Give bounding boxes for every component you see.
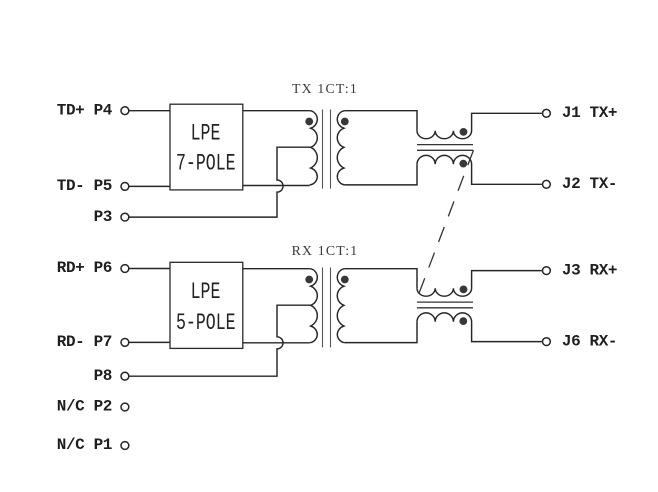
svg-text:P8: P8 (94, 367, 112, 385)
svg-text:TD+ P4: TD+ P4 (57, 101, 113, 119)
svg-text:5-POLE: 5-POLE (176, 311, 236, 337)
svg-text:LPE: LPE (191, 280, 221, 306)
svg-text:TD- P5: TD- P5 (57, 177, 112, 195)
svg-text:J6 RX-: J6 RX- (562, 332, 617, 350)
svg-text:J3 RX+: J3 RX+ (562, 261, 617, 279)
svg-text:N/C P2: N/C P2 (57, 398, 112, 416)
svg-text:J1 TX+: J1 TX+ (562, 104, 617, 122)
svg-text:7-POLE: 7-POLE (176, 151, 236, 177)
svg-text:RD+ P6: RD+ P6 (57, 259, 112, 277)
svg-text:N/C P1: N/C P1 (57, 436, 112, 454)
svg-text:TX 1CT:1: TX 1CT:1 (292, 81, 358, 96)
svg-text:J2 TX-: J2 TX- (562, 175, 617, 193)
svg-text:LPE: LPE (191, 121, 221, 147)
svg-text:P3: P3 (94, 208, 112, 226)
svg-text:RD- P7: RD- P7 (57, 333, 112, 351)
svg-text:RX 1CT:1: RX 1CT:1 (292, 243, 359, 258)
